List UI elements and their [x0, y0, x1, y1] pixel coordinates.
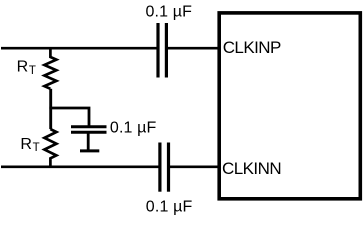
IC block U1: [219, 13, 360, 199]
label RT (lower): [20, 136, 39, 154]
wire branch (junction to C3): [49, 108, 89, 126]
svg-text:CLKINN: CLKINN: [222, 159, 281, 178]
capacitor C3 0.1uF (bypass, junction to ground): [71, 127, 107, 151]
capacitor C2 0.1uF (series, CLKINN line): [160, 143, 169, 192]
svg-text:0.1 µF: 0.1 µF: [110, 120, 157, 137]
svg-text:R: R: [20, 136, 32, 153]
wire top-right (C1 to CLKINP pin): [168, 47, 219, 50]
wire vertical (R1 bottom to R2 top, junction node): [49, 89, 52, 129]
resistor R2 (RT, lower termination): [44, 129, 56, 168]
ground: [80, 149, 99, 152]
svg-text:R: R: [17, 59, 29, 76]
capacitor C1 0.1uF (series, CLKINP line): [158, 23, 166, 78]
wire bottom-left (CLKINN line, left of C2): [1, 165, 159, 168]
svg-text:T: T: [33, 142, 40, 154]
svg-text:T: T: [29, 65, 36, 77]
label RT (upper): [17, 59, 36, 78]
svg-text:CLKINP: CLKINP: [223, 38, 281, 57]
wire bottom-right (C2 to CLKINN pin): [170, 165, 219, 168]
resistor R1 (RT, upper termination): [44, 47, 56, 89]
svg-text:0.1 µF: 0.1 µF: [146, 4, 193, 21]
wire top-left (CLKINP line, left of C1): [1, 47, 157, 50]
svg-text:0.1 µF: 0.1 µF: [146, 199, 193, 216]
